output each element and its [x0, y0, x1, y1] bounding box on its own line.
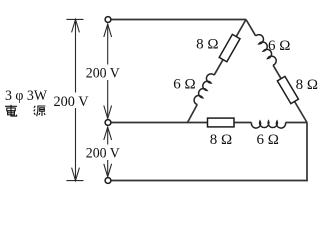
svg-text:200 V: 200 V: [86, 66, 120, 82]
svg-text:6 Ω: 6 Ω: [268, 38, 290, 54]
svg-text:3 φ 3W: 3 φ 3W: [5, 88, 48, 104]
svg-text:8 Ω: 8 Ω: [210, 132, 232, 148]
svg-text:8 Ω: 8 Ω: [196, 37, 218, 53]
svg-text:200 V: 200 V: [54, 94, 89, 110]
svg-text:6 Ω: 6 Ω: [173, 77, 195, 93]
svg-text:6 Ω: 6 Ω: [256, 132, 278, 148]
svg-text:200 V: 200 V: [86, 146, 120, 162]
svg-text:8 Ω: 8 Ω: [296, 77, 318, 93]
